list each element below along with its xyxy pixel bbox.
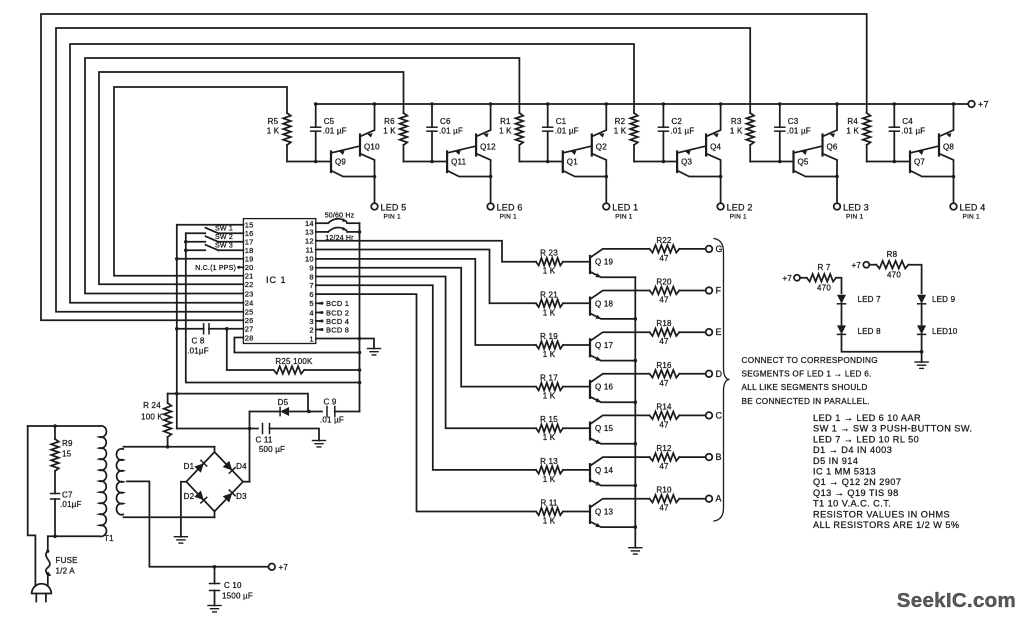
svg-text:LED 3: LED 3 [843,203,869,213]
svg-text:Q6: Q6 [827,143,838,152]
svg-text:C 11: C 11 [255,436,272,445]
diode D3 [223,493,233,503]
svg-text:.01 µF: .01 µF [670,127,694,136]
svg-text:47: 47 [659,420,669,429]
svg-text:100 K: 100 K [141,413,163,422]
svg-text:BCD 8: BCD 8 [326,325,349,334]
resistor R 11 1K [536,508,563,516]
diode D4 [223,461,233,471]
svg-text:.01 µF: .01 µF [320,416,344,425]
svg-text:1500 µF: 1500 µF [222,592,253,601]
wire IC pin 9 to segment row D [316,268,536,387]
wire mains left [28,426,36,586]
svg-text:IC 1: IC 1 [266,275,287,285]
wire IC pin 6 to segment row A [316,294,536,511]
svg-text:1 K: 1 K [267,127,280,136]
LED 10 [917,325,926,334]
svg-text:R 19: R 19 [540,332,558,341]
wire bridge top jog [214,447,216,452]
transistor Q 15 (NPN) [589,423,591,440]
terminal segment G [706,246,713,253]
svg-text:F: F [716,286,722,296]
wire IC pin 10 to segment row E [316,259,536,345]
svg-text:Q3: Q3 [681,158,692,167]
svg-text:C: C [716,410,723,420]
svg-text:1 K: 1 K [543,267,556,276]
svg-text:D4: D4 [236,462,247,471]
svg-text:PIN 1: PIN 1 [963,214,980,221]
svg-text:R22: R22 [656,236,672,245]
svg-text:LED 1: LED 1 [612,203,638,213]
wire base line [519,161,561,163]
LED lamp terminal LED 4 pin 1 [950,203,957,210]
svg-text:RESISTOR VALUES IN OHMS: RESISTOR VALUES IN OHMS [813,509,950,519]
capacitor C10 1500uF [214,567,216,584]
svg-text:+7: +7 [851,261,861,270]
LED 9 [917,295,926,304]
svg-text:Q12: Q12 [480,143,496,152]
svg-text:Q2: Q2 [596,143,607,152]
ground (bridge) [174,536,187,538]
svg-text:LED 4: LED 4 [960,203,986,213]
svg-text:1 K: 1 K [383,127,396,136]
svg-text:SW 3: SW 3 [215,242,233,249]
svg-text:D3: D3 [236,492,247,501]
LED lamp terminal LED 5 pin 1 [371,203,378,210]
svg-text:C7: C7 [62,491,73,500]
capacitor C5 .01uF [315,104,317,127]
resistor R9 15 [54,426,56,439]
svg-text:13: 13 [305,228,314,237]
svg-text:R 21: R 21 [540,290,558,299]
svg-text:R14: R14 [656,402,672,411]
svg-text:ALL LIKE SEGMENTS SHOULD: ALL LIKE SEGMENTS SHOULD [742,383,868,392]
LED 7 [837,295,846,304]
LED 8 [837,325,846,334]
svg-text:47: 47 [659,296,669,305]
ground (C10) [208,605,221,607]
svg-text:47: 47 [659,337,669,346]
svg-text:R18: R18 [656,319,672,328]
svg-text:C6: C6 [440,117,451,126]
svg-text:C5: C5 [324,117,335,126]
transformer T1 primary [100,426,107,537]
svg-text:15: 15 [62,450,72,459]
svg-text:1 K: 1 K [846,127,859,136]
svg-text:R4: R4 [847,117,858,126]
svg-text:D1 → D4 IN 4003: D1 → D4 IN 4003 [813,445,892,455]
svg-text:SW 1 → SW 3 PUSH-BUTTON SW.: SW 1 → SW 3 PUSH-BUTTON SW. [813,424,973,434]
transistor Q5 (PNP) [792,152,794,173]
svg-text:R6: R6 [384,117,395,126]
capacitor C11 500uF [262,424,264,434]
svg-text:47: 47 [659,504,669,513]
transistor Q10 (PNP) [359,135,361,156]
svg-text:.01 µF: .01 µF [439,127,463,136]
capacitor C2 .01uF [662,104,664,127]
svg-text:1 K: 1 K [543,392,556,401]
resistor R 23 1K [536,258,563,266]
svg-text:R 17: R 17 [540,374,558,383]
svg-text:50/60 Hz: 50/60 Hz [325,213,355,220]
svg-text:Q10: Q10 [364,143,380,152]
svg-text:470: 470 [887,271,901,280]
resistor R3 1K [746,113,754,145]
svg-text:1 K: 1 K [614,127,627,136]
wire pin 15 [177,224,244,226]
svg-text:R16: R16 [656,361,672,370]
svg-text:Q8: Q8 [943,143,954,152]
svg-text:E: E [716,327,722,337]
svg-text:+7: +7 [279,563,289,572]
svg-text:C3: C3 [788,117,799,126]
svg-text:R10: R10 [656,486,672,495]
resistor R14 47 [650,412,680,420]
svg-text:D2: D2 [184,492,195,501]
svg-text:Q7: Q7 [914,158,925,167]
svg-text:500 µF: 500 µF [259,445,285,454]
wire IC pin 8 to segment row C [316,277,536,429]
capacitor C1 .01uF [547,104,549,127]
resistor R 21 1K [536,300,563,308]
resistor R20 47 [650,287,680,295]
diode bridge D1-D4 [186,452,214,482]
resistor R25 100K [226,329,228,370]
node BCD 4 (pin 3) [316,320,322,322]
svg-text:N.C.(1 PPS): N.C.(1 PPS) [195,265,236,272]
transistor Q 19 (NPN) [589,256,591,273]
svg-text:SW 1: SW 1 [215,225,233,232]
LED lamp terminal LED 1 pin 1 [603,203,610,210]
capacitor C7 .01uF [51,493,60,495]
wire base line [287,161,330,163]
svg-text:Q11: Q11 [451,158,466,167]
svg-text:R 13: R 13 [540,457,558,466]
transistor Q2 (PNP) [591,135,593,156]
svg-text:D5: D5 [278,398,289,407]
svg-text:Q1: Q1 [567,158,578,167]
wire secondary bottom to bridge [124,516,215,518]
transformer T1 secondary [116,449,123,515]
svg-text:LED 7 → LED 10 RL 50: LED 7 → LED 10 RL 50 [813,434,919,444]
svg-text:SW 2: SW 2 [215,234,233,241]
terminal segment E [706,329,713,336]
ground (C11) [313,440,326,442]
wire base line [404,161,447,163]
transistor Q9 (PNP) [330,152,332,173]
svg-text:ALL RESISTORS ARE 1/2 W 5%: ALL RESISTORS ARE 1/2 W 5% [813,520,960,530]
resistor R 19 1K [536,341,563,349]
svg-text:B: B [716,452,722,462]
svg-text:Q4: Q4 [710,143,721,152]
transistor Q3 (PNP) [676,152,678,173]
wire center tap to +7 rail [127,481,269,566]
terminal segment C [706,412,713,419]
svg-text:LED 1 → LED 6 10 AAR: LED 1 → LED 6 10 AAR [813,413,921,423]
svg-text:.01 µF: .01 µF [901,127,925,136]
svg-text:1 K: 1 K [543,475,556,484]
resistor R4 1K [863,113,871,145]
svg-text:LED 5: LED 5 [381,203,407,213]
svg-text:24: 24 [245,299,254,308]
svg-text:FUSE: FUSE [56,556,78,565]
svg-text:LED 7: LED 7 [858,295,882,304]
svg-text:BE CONNECTED IN PARALLEL.: BE CONNECTED IN PARALLEL. [742,397,870,406]
svg-text:8: 8 [309,272,313,281]
wire R24 top to D5 line [168,394,308,412]
LED lamp terminal LED 6 pin 1 [487,203,494,210]
svg-text:+7: +7 [782,274,792,283]
wire IC pin to R top (loop 2) [99,72,404,284]
svg-text:28: 28 [245,333,254,342]
resistor R7 470 [800,277,807,279]
node Vss vertical rail [359,223,361,411]
fuse 1/2 A [47,536,49,551]
LED lamp terminal LED 3 pin 1 [834,203,841,210]
svg-text:Q 14: Q 14 [595,466,613,475]
LED lamp terminal LED 2 pin 1 [717,203,724,210]
svg-text:.01 µF: .01 µF [323,127,347,136]
node BCD 8 (pin 2) [316,329,322,331]
svg-text:IC 1 MM 5313: IC 1 MM 5313 [813,467,876,477]
svg-text:.01µF: .01µF [60,500,82,509]
resistor R22 47 [650,245,680,253]
svg-text:A: A [716,494,722,504]
terminal segment A [706,495,713,502]
svg-text:7: 7 [309,281,313,290]
terminal +7 top right [968,101,975,108]
ground (pin 1) [368,348,381,350]
svg-text:R 23: R 23 [540,249,558,258]
svg-text:1: 1 [309,334,313,343]
svg-text:T1 10 V.A.C. C.T.: T1 10 V.A.C. C.T. [813,499,891,509]
svg-text:R2: R2 [615,117,626,126]
wire primary top [28,425,100,427]
transistor Q11 (PNP) [446,152,448,173]
transistor Q7 (PNP) [909,152,911,173]
capacitor C9 .01uF [326,407,328,417]
wire C11 line [177,428,258,430]
svg-text:1 K: 1 K [730,127,743,136]
wire IC pin to R top (loop 1) [114,87,287,276]
svg-text:Q9: Q9 [335,158,346,167]
transistor Q 16 (NPN) [589,381,591,398]
wire base line [634,161,676,163]
transistor Q 13 (NPN) [589,506,591,523]
svg-text:C 10: C 10 [224,581,242,590]
svg-text:470: 470 [817,284,831,293]
svg-text:R 24: R 24 [143,401,161,410]
svg-text:.01 µF: .01 µF [555,127,579,136]
top +7 supply bus [316,103,969,105]
svg-text:LED 2: LED 2 [727,203,753,213]
svg-text:11: 11 [306,245,314,254]
svg-text:R8: R8 [887,250,898,259]
svg-text:T1: T1 [104,534,114,543]
resistor R16 47 [650,370,680,378]
capacitor C3 .01uF [779,104,781,127]
wire IC pin 7 to segment row B [316,285,536,470]
svg-text:C1: C1 [556,117,567,126]
node SW common vertical [186,233,360,382]
svg-text:.01 µF: .01 µF [787,127,811,136]
resistor R2 1K [630,113,638,145]
svg-text:R5: R5 [268,117,279,126]
svg-text:R20: R20 [656,278,672,287]
wire IC pin to R top (loop 5) [56,28,750,312]
svg-text:SEGMENTS OF LED 1 → LED 6.: SEGMENTS OF LED 1 → LED 6. [742,370,872,379]
svg-text:SeekIC.com: SeekIC.com [897,589,1016,612]
svg-text:LED 8: LED 8 [858,327,882,336]
svg-text:CONNECT TO CORRESPONDING: CONNECT TO CORRESPONDING [742,356,878,365]
wire bridge bottom jog [214,511,216,517]
svg-text:Q 15: Q 15 [595,424,613,433]
svg-text:47: 47 [659,254,669,263]
svg-text:Q 18: Q 18 [595,299,613,308]
svg-text:Q 17: Q 17 [595,341,613,350]
resistor R10 47 [650,495,680,503]
svg-text:PIN 1: PIN 1 [384,214,401,221]
svg-text:1 K: 1 K [499,127,512,136]
svg-text:PIN 1: PIN 1 [615,214,632,221]
node BCD 2 (pin 4) [316,312,322,314]
svg-text:12: 12 [305,237,314,246]
svg-text:Q5: Q5 [798,158,809,167]
diode D2 [194,491,204,501]
resistor R24 100K [167,394,169,403]
svg-text:47: 47 [659,462,669,471]
plug [32,584,52,594]
svg-text:C2: C2 [671,117,682,126]
transistor Q1 (PNP) [562,152,564,173]
transistor Q8 (PNP) [938,135,940,156]
svg-text:PIN 1: PIN 1 [846,214,863,221]
capacitor C8 .01uF (pin 27) [209,328,243,330]
svg-text:C 8: C 8 [191,337,204,346]
svg-text:1 K: 1 K [543,308,556,317]
terminal segment D [706,371,713,378]
svg-text:R3: R3 [731,117,742,126]
capacitor C6 .01uF [431,104,433,127]
wire secondary top to bridge [124,446,215,448]
resistor R12 47 [650,453,680,461]
switch SW 2 (pin 17) [218,241,243,243]
op IC1 MM5313 body [243,219,315,344]
svg-text:47: 47 [659,379,669,388]
svg-text:.01µF: .01µF [187,347,209,356]
wire pin 19 [177,258,244,260]
wire base line [750,161,792,163]
resistor R 17 1K [536,383,563,391]
terminal segment F [706,287,713,294]
svg-text:D1: D1 [184,462,195,471]
diode D1 [194,463,204,473]
svg-text:10: 10 [305,255,314,264]
wire IC pin 12 to segment row G [316,241,536,262]
svg-text:22: 22 [245,280,254,289]
svg-text:1 K: 1 K [543,350,556,359]
svg-text:9: 9 [309,264,313,273]
ground (emitter rail) [629,547,642,549]
resistor R6 1K [400,113,408,145]
svg-text:LED 6: LED 6 [497,203,523,213]
svg-text:D: D [716,369,723,379]
svg-text:14: 14 [305,219,314,228]
wire primary bottom [48,535,100,537]
resistor R5 1K [283,113,291,145]
transistor Q6 (PNP) [821,135,823,156]
wire IC pin 11 to segment row F [316,250,536,304]
svg-text:1/2 A: 1/2 A [56,567,76,576]
resistor R1 1K [516,113,524,145]
switch 50/60 Hz (pin 14) [316,222,328,224]
svg-text:R12: R12 [656,444,672,453]
node BCD 1 (pin 5) [316,302,322,304]
svg-text:R25 100K: R25 100K [275,357,313,366]
svg-text:PIN 1: PIN 1 [730,214,747,221]
transistor Q12 (PNP) [475,135,477,156]
wire pin 28 loop [234,338,359,353]
resistor R 13 1K [536,466,563,474]
switch SW 3 (pin 18) [218,249,243,251]
wire pin 1 to ground [316,339,374,349]
svg-text:R1: R1 [500,117,511,126]
transistor Q4 (PNP) [705,135,707,156]
wire base line [867,161,909,163]
svg-text:5: 5 [309,299,313,308]
svg-text:Q 16: Q 16 [595,383,613,392]
resistor R 15 1K [536,424,563,432]
svg-text:27: 27 [245,325,254,334]
node vertical A (pin15/19/C8/R24/C11) [176,225,178,429]
svg-text:Q 13: Q 13 [595,508,613,517]
svg-text:R9: R9 [62,439,73,448]
node emitter rail [634,277,636,547]
wire bridge + rail [249,412,251,482]
svg-text:R 11: R 11 [540,499,557,508]
svg-text:1 K: 1 K [543,517,556,526]
resistor R8 470 [869,264,876,266]
svg-text:G: G [716,244,723,254]
svg-text:2: 2 [309,325,313,334]
capacitor C4 .01uF [893,104,895,127]
wire IC pin to R top (loop 3) [85,58,519,294]
svg-text:Q13 → Q19 TIS 98: Q13 → Q19 TIS 98 [813,488,899,498]
svg-text:LED10: LED10 [932,327,958,336]
svg-text:BCD 1: BCD 1 [326,299,349,308]
svg-text:C 9: C 9 [323,398,336,407]
transistor Q 14 (NPN) [589,464,591,481]
svg-text:+7: +7 [978,100,989,110]
terminal +7 bottom [269,564,276,571]
terminal segment B [706,454,713,461]
wire bridge left to ground [181,482,186,537]
svg-text:R 15: R 15 [540,415,558,424]
transistor Q 18 (NPN) [589,298,591,315]
svg-text:1 K: 1 K [543,433,556,442]
switch 12/24 Hr (pin 13) [316,231,328,233]
diode D5 IN914 [250,411,280,413]
brace segment bus [714,239,730,522]
wire IC pin to R top (loop 4) [70,44,634,303]
switch SW 1 (pin 16) [218,232,243,234]
wire IC pin to R top (loop 6) [41,14,867,320]
svg-text:PIN 1: PIN 1 [500,214,517,221]
svg-text:Q1 → Q12 2N 2907: Q1 → Q12 2N 2907 [813,477,901,487]
ground (LED block) [915,361,928,363]
svg-text:R 7: R 7 [817,263,830,272]
transistor Q 17 (NPN) [589,339,591,356]
